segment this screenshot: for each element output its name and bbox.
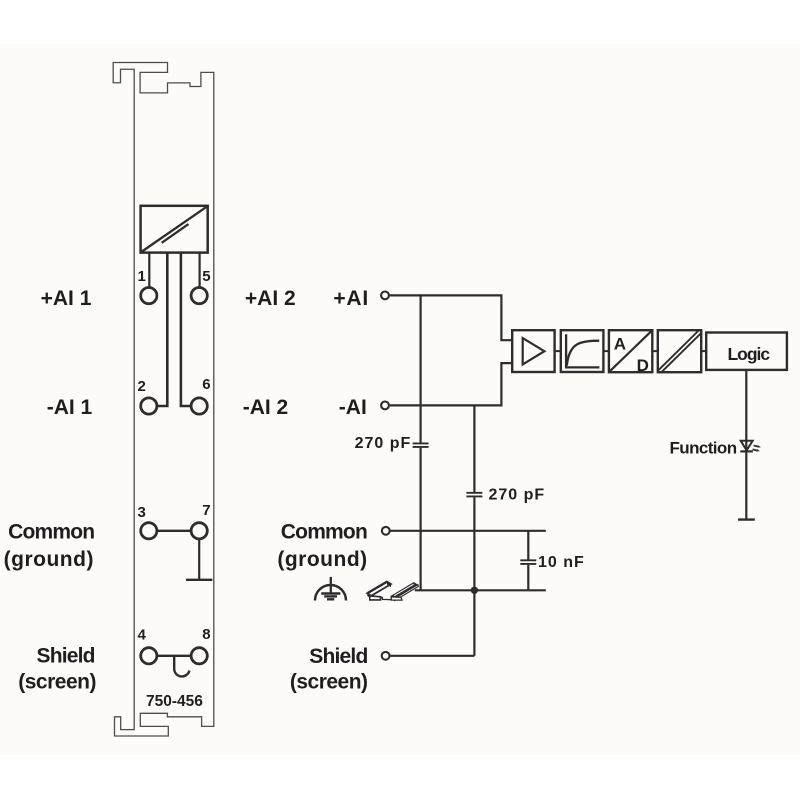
module outline 750-456 housing (113, 63, 214, 737)
svg-text:-AI: -AI (339, 396, 367, 419)
wire box to pin 1 (148, 253, 150, 287)
svg-text:Shield: Shield (309, 645, 367, 668)
input box (open right side with stubs to amplifier) (421, 295, 513, 405)
shield pigtail hook (174, 656, 189, 677)
converter box diagonal (141, 206, 207, 252)
svg-text:Function: Function (670, 439, 737, 458)
svg-text:+AI: +AI (333, 287, 369, 310)
wire Common (390, 530, 546, 532)
left rail far cap (387, 582, 391, 588)
wire node line1 upper (420, 405, 422, 442)
filter curve (567, 341, 599, 366)
svg-text:750-456: 750-456 (146, 693, 203, 710)
svg-text:-AI 2: -AI 2 (243, 396, 289, 419)
svg-text:5: 5 (202, 268, 210, 285)
pin 5 (191, 288, 207, 304)
foot notch (381, 597, 392, 599)
wire pin4 to pin8 (157, 655, 191, 657)
capacitor C1 270 pF plates (413, 442, 429, 444)
wire amp to filter (555, 350, 561, 352)
wire box to pin 2 (157, 253, 168, 406)
converter box diagonal 2 (162, 224, 189, 243)
isolation double diagonal (660, 332, 701, 373)
svg-text:+AI 2: +AI 2 (245, 287, 296, 310)
galvanic isolation box (658, 330, 701, 372)
terminal Common (382, 527, 390, 535)
LED cathode bar (740, 450, 753, 452)
filter axes (566, 334, 599, 367)
wire -AI to input box (390, 404, 421, 406)
svg-text:(ground): (ground) (277, 548, 367, 571)
svg-text:4: 4 (138, 626, 147, 643)
pin 2 (141, 398, 157, 414)
filter box (561, 330, 604, 372)
functional earth symbol (315, 577, 346, 601)
svg-text:D: D (637, 356, 649, 375)
converter box U1 (141, 206, 208, 253)
wire logic to ground (745, 370, 747, 520)
terminal Shield (382, 652, 390, 660)
wire +AI to input box (390, 294, 421, 296)
right rail foot (391, 597, 402, 600)
pin 7 chassis bar (186, 579, 212, 581)
wire pin3 to pin7 (157, 530, 191, 532)
A/D diagonal (610, 331, 652, 372)
svg-text:(screen): (screen) (290, 671, 368, 694)
wire node line2 lower (473, 497, 475, 656)
right rail bottom stripe (394, 585, 418, 601)
capacitor C3 10 nF plates (520, 559, 536, 561)
A/D converter box (609, 330, 652, 372)
wire box to pin 6 (181, 253, 191, 406)
DIN rail icon (367, 582, 418, 601)
pin 6 (191, 398, 207, 414)
svg-text:(screen): (screen) (18, 671, 96, 694)
capacitor C2 270 pF plates (466, 492, 482, 494)
wire box to pin 5 (199, 253, 201, 287)
wire 10nF branch lower (527, 565, 529, 591)
junction node (471, 587, 478, 594)
foot under left rail (370, 596, 381, 600)
svg-text:A: A (614, 334, 626, 353)
amplifier triangle (523, 338, 545, 364)
svg-text:270 pF: 270 pF (489, 487, 546, 504)
right rail hatch highlight (394, 584, 413, 596)
pin 3 (141, 523, 157, 539)
left rail top edge stripe (368, 582, 388, 594)
svg-text:-AI 1: -AI 1 (47, 396, 93, 419)
wire 10nF branch upper (527, 531, 529, 560)
svg-text:270 pF: 270 pF (355, 435, 412, 452)
svg-text:8: 8 (202, 626, 210, 643)
svg-text:3: 3 (138, 504, 146, 521)
amplifier box (512, 330, 554, 372)
LED light arrows (753, 445, 761, 451)
terminal -AI (381, 402, 389, 410)
left rail top face (367, 582, 391, 596)
pin 7 (191, 523, 207, 539)
svg-text:Logic: Logic (727, 344, 770, 364)
svg-text:1: 1 (138, 268, 146, 285)
pin 7 chassis stub wire (198, 539, 200, 580)
svg-text:7: 7 (202, 502, 210, 519)
chassis ground bar under logic (738, 518, 755, 520)
pin 1 (141, 288, 157, 304)
svg-text:+AI 1: +AI 1 (41, 287, 92, 310)
terminal +AI (381, 292, 389, 300)
wire node line1 lower (420, 448, 422, 591)
svg-text:2: 2 (138, 378, 146, 395)
wire bottom ground rail (415, 589, 546, 591)
wire filter to A/D (603, 350, 609, 352)
right rail hatched bar (390, 582, 418, 599)
wire Shield (390, 655, 474, 657)
svg-text:Common: Common (281, 520, 367, 543)
svg-text:Common: Common (8, 521, 94, 544)
svg-text:(ground): (ground) (4, 548, 94, 571)
pin 8 (191, 648, 207, 664)
svg-text:6: 6 (202, 376, 210, 393)
left rail near cap (367, 593, 371, 598)
svg-text:Shield: Shield (36, 645, 94, 668)
wire node line2 upper (473, 405, 475, 492)
logic box (706, 333, 787, 370)
wire isolation to logic (701, 350, 706, 352)
wire A/D to isolation (652, 350, 658, 352)
svg-text:10 nF: 10 nF (538, 554, 585, 571)
LED function indicator triangle (741, 441, 753, 451)
pin 4 (141, 648, 157, 664)
